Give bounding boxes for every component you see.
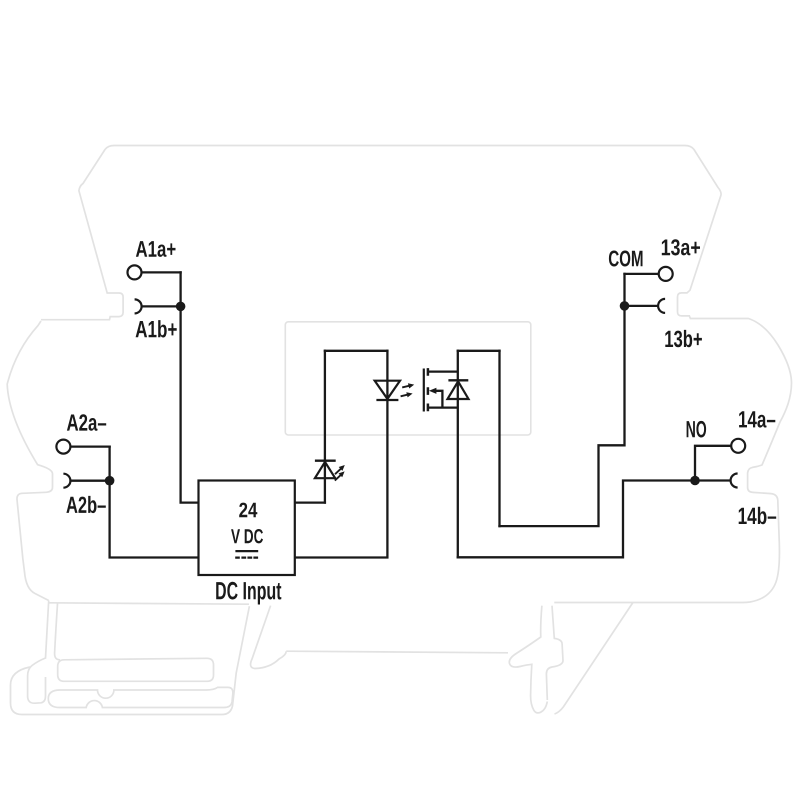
- label A2b-: [66, 496, 105, 513]
- label DC Input: [216, 582, 281, 605]
- right foot clamp lever inner edge: [546, 606, 563, 700]
- indicator LED D1 light arrow 2: [335, 475, 341, 481]
- body diode D3 cathode bar: [448, 379, 468, 381]
- left foot DIN rail profile with lips: [48, 687, 233, 707]
- wire staircase to COM node: [500, 274, 625, 526]
- node COM junction dot: [620, 301, 630, 311]
- label NO: [687, 421, 707, 438]
- DC input converter box U1: [199, 481, 295, 576]
- wire top of output loop: [458, 350, 500, 352]
- terminal A2b- clamp arc: [63, 474, 70, 488]
- label 14a-: [739, 411, 775, 427]
- indicator LED D1 triangle: [315, 462, 335, 478]
- MOSFET Q1 gate bar: [423, 369, 425, 412]
- terminal 13b+ clamp arc: [658, 299, 665, 313]
- label 13b+: [665, 330, 702, 347]
- optocoupler light arrow 2: [401, 395, 408, 397]
- MOSFET Q1 drain wire: [428, 370, 458, 372]
- wire COM node to 13a circle: [625, 273, 658, 275]
- DC symbol solid line: [235, 550, 258, 552]
- body diode D3 triangle: [448, 381, 469, 399]
- MOSFET Q1 channel segments: [427, 368, 430, 411]
- wire NO node to 14b arc: [695, 479, 730, 481]
- left foot leg inner edge: [55, 604, 60, 660]
- optocoupler light arrow 1: [401, 383, 415, 397]
- wire A1b arc to node A1: [143, 305, 181, 307]
- wire A2b arc to node A2: [72, 480, 110, 482]
- terminal A1a+ screw circle: [128, 265, 142, 279]
- terminal A1b+ clamp arc: [135, 299, 142, 313]
- label V DC: [231, 529, 263, 543]
- label 14b-: [739, 507, 777, 524]
- wire COM node to 13b arc: [625, 305, 658, 307]
- wire top of input loop: [325, 350, 388, 352]
- DC symbol dashed line: [235, 556, 258, 558]
- wire output to NO node: [458, 481, 695, 558]
- indicator LED D1 cathode bar: [315, 460, 336, 462]
- housing outline: terminal block silhouette: [7, 146, 791, 715]
- wire LED branch vertical: [324, 351, 326, 503]
- right foot clamp lever outer edge with rail hook: [509, 606, 547, 713]
- label A2a-: [67, 414, 106, 431]
- wire A1a circle to node A1: [143, 271, 181, 273]
- wire node A1 down to DC input box left pin 1: [181, 272, 199, 502]
- label COM: [609, 251, 643, 267]
- wire output right vertical: [498, 351, 500, 526]
- label A1b+: [136, 320, 177, 337]
- terminal 14a- screw circle: [731, 439, 745, 453]
- optocoupler LED triangle: [375, 381, 400, 399]
- DIN rail top edge: [286, 651, 508, 653]
- left foot inner diagonal to rail: [251, 606, 287, 669]
- wire A2a circle to node A2: [72, 445, 110, 447]
- terminal 13a+ screw circle: [659, 267, 673, 281]
- MOSFET Q1 body connection wire: [436, 391, 442, 408]
- optocoupler LED cathode bar: [376, 399, 398, 401]
- left foot outer clamp silhouette: [11, 606, 250, 714]
- housing bottom edge left segment: [49, 603, 249, 604]
- optocoupler dashed-boundary box: [285, 322, 531, 435]
- left foot leg and rail hook: [28, 601, 49, 704]
- terminal 14b- clamp arc: [731, 474, 738, 488]
- wire node A2 down to DC input box left pin 2: [110, 447, 199, 558]
- MOSFET Q1 body arrow head: [429, 388, 437, 394]
- wire opto LED branch down and back to DC box right pin 2: [295, 351, 388, 558]
- node A1 junction dot: [176, 302, 186, 312]
- label 24: [239, 503, 257, 518]
- node NO junction dot: [690, 476, 700, 486]
- terminal A2a- screw circle: [56, 440, 70, 454]
- label 13a+: [662, 239, 700, 255]
- indicator LED D1 light arrow 1: [335, 465, 345, 481]
- wire NO node up to 14a circle: [695, 446, 730, 481]
- housing left middle edge with A2b notch: [7, 321, 52, 601]
- wire MOSFET/diode vertical: [457, 351, 459, 558]
- MOSFET Q1 source wire: [428, 406, 458, 408]
- wire DC box right pin 1 to LED branch: [295, 501, 325, 503]
- right foot outer diagonal: [555, 602, 634, 714]
- left foot inner panel: [58, 658, 214, 681]
- node A2 junction dot: [105, 476, 115, 486]
- label A1a+: [136, 241, 176, 257]
